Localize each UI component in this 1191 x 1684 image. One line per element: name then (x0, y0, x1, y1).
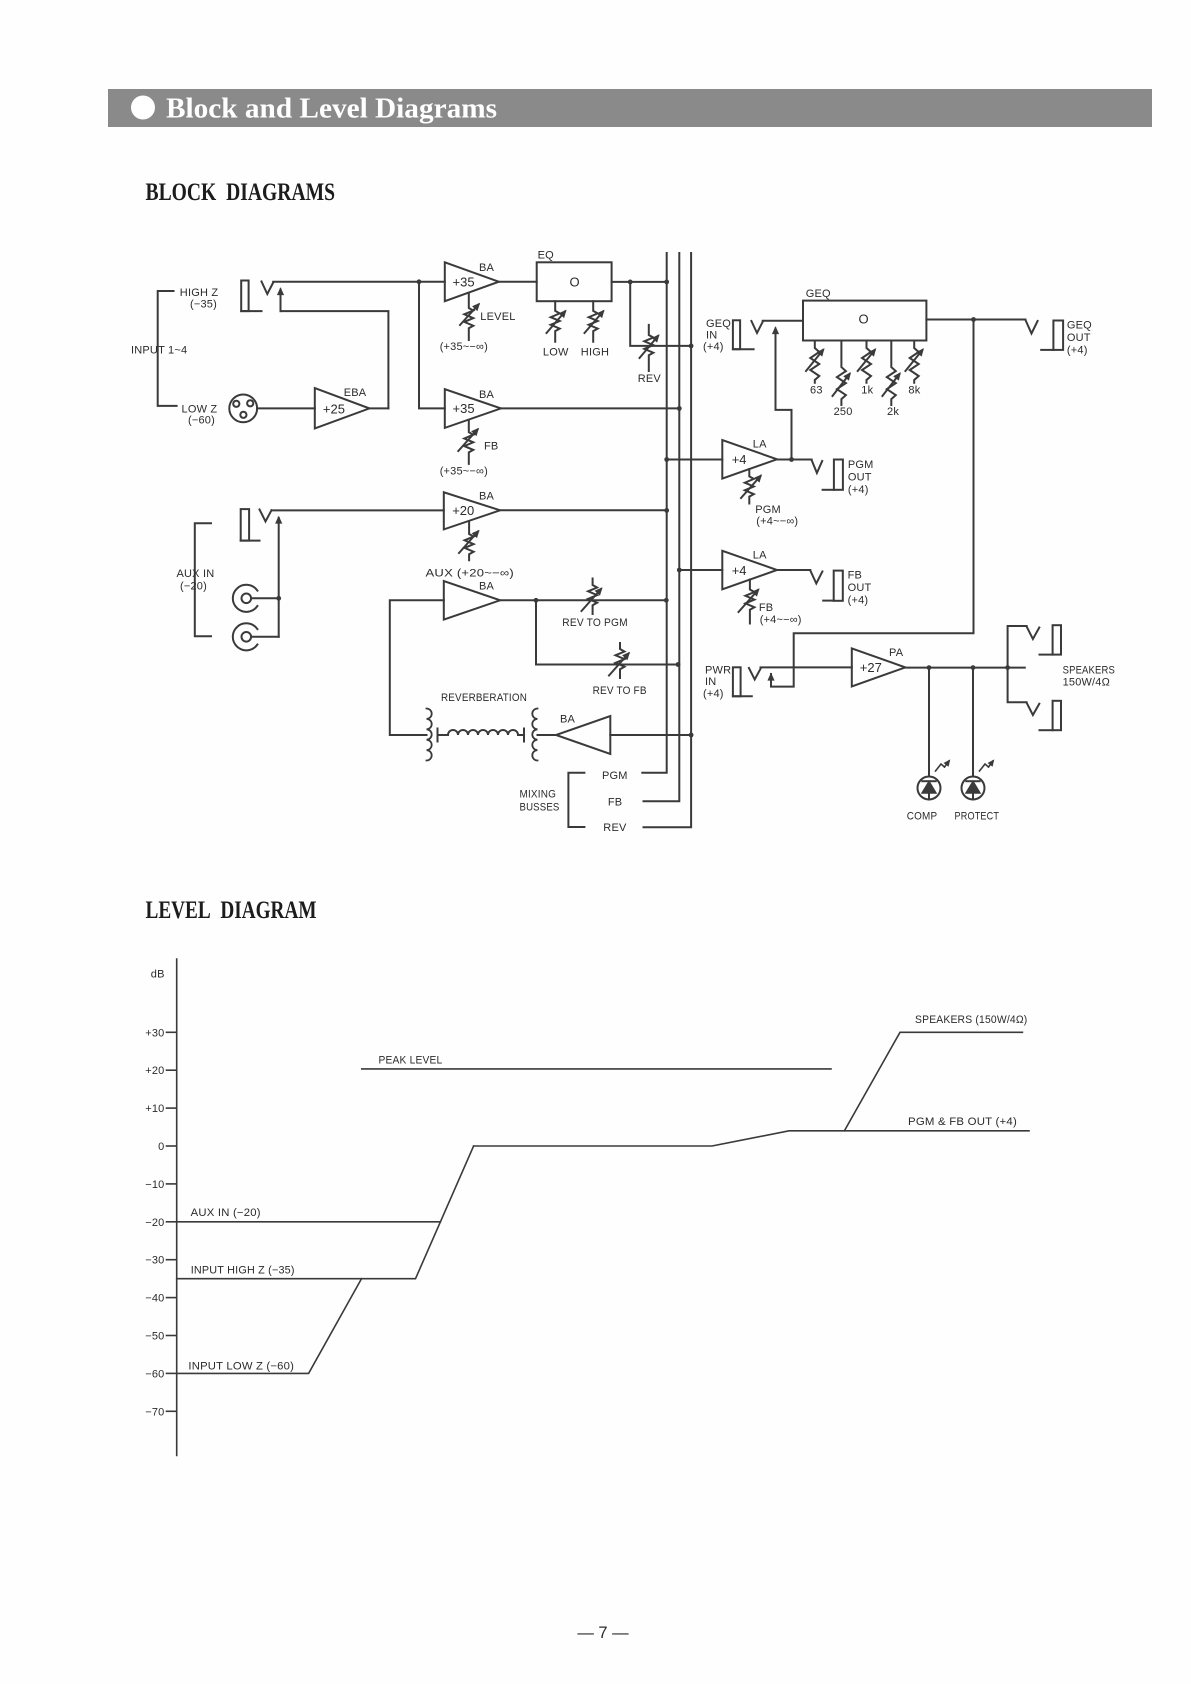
label PGM master pot (755, 504, 798, 528)
svg-text:GEQ: GEQ (1067, 320, 1092, 332)
axis tick +20 (167, 1069, 177, 1071)
wire PWR line to PA (761, 666, 852, 668)
svg-text:IN: IN (706, 330, 717, 342)
axis tick -10 (167, 1183, 177, 1185)
svg-text:PROTECT: PROTECT (955, 811, 1000, 823)
wire GEQ in line (763, 320, 803, 322)
svg-text:−70: −70 (145, 1406, 164, 1418)
svg-text:(+35~−∞): (+35~−∞) (440, 341, 488, 353)
svg-text:(+4~−∞): (+4~−∞) (760, 614, 802, 626)
RCA connector top (233, 585, 279, 612)
jack HIGH Z input (241, 281, 273, 312)
speaker jack bottom (1008, 668, 1061, 731)
svg-text:LA: LA (753, 550, 767, 562)
label SPEAKERS 150W/4ohm (1063, 665, 1115, 689)
potentiometer AUX (426, 523, 515, 580)
svg-text:INPUT 1~4: INPUT 1~4 (131, 345, 187, 357)
svg-text:−50: −50 (145, 1331, 164, 1343)
svg-text:PGM: PGM (848, 459, 874, 471)
svg-text:8k: 8k (908, 385, 920, 397)
svg-text:PGM: PGM (755, 504, 781, 516)
svg-text:2k: 2k (887, 406, 899, 418)
svg-text:FB: FB (484, 441, 498, 453)
node BA2 out (677, 406, 682, 411)
amplifier LA +4 (FB master) (722, 550, 777, 590)
label FB master pot (759, 602, 802, 626)
svg-text:+4: +4 (732, 452, 747, 467)
svg-text:63: 63 (810, 385, 823, 397)
svg-text:BA: BA (479, 262, 495, 274)
axis tick 0 (167, 1145, 177, 1147)
svg-text:−30: −30 (145, 1255, 164, 1267)
svg-text:COMP: COMP (907, 811, 938, 823)
trace INPUT LOW Z (177, 1279, 362, 1374)
svg-text:(+35~−∞): (+35~−∞) (440, 466, 488, 478)
wire EQ output to PGM bus (612, 281, 667, 283)
svg-text:(+4): (+4) (703, 688, 724, 700)
node reverb drive bus join (689, 733, 694, 738)
bracket MIXING BUSSES (568, 773, 584, 827)
svg-text:PWR: PWR (705, 665, 731, 677)
svg-text:+35: +35 (453, 401, 475, 416)
svg-text:LOW: LOW (543, 347, 569, 359)
svg-text:(−20): (−20) (180, 581, 207, 593)
jack FB OUT (810, 571, 843, 601)
svg-text:BLOCK DIAGRAMS: BLOCK DIAGRAMS (146, 179, 336, 206)
reverberation spring right (532, 709, 537, 761)
line PEAK LEVEL (362, 1068, 831, 1070)
svg-text:PGM & FB OUT (+4): PGM & FB OUT (+4) (908, 1116, 1017, 1128)
svg-text:(+4): (+4) (848, 484, 869, 496)
svg-text:REV: REV (638, 373, 662, 385)
svg-text:+20: +20 (452, 503, 474, 518)
axis tick -50 (167, 1335, 177, 1337)
slider 63 (806, 341, 823, 397)
svg-text:INPUT LOW Z (−60): INPUT LOW Z (−60) (188, 1361, 294, 1373)
slider 1k (858, 341, 875, 397)
wire reverb return to BA (390, 600, 444, 735)
svg-text:PEAK LEVEL: PEAK LEVEL (379, 1055, 443, 1067)
wire LA2 input from FB bus (679, 569, 722, 571)
svg-text:MIXING: MIXING (520, 789, 557, 801)
svg-text:BA: BA (479, 581, 495, 593)
svg-text:FB: FB (759, 602, 773, 614)
svg-text:+4: +4 (732, 563, 747, 578)
svg-text:EQ: EQ (538, 250, 555, 262)
svg-text:−60: −60 (145, 1368, 164, 1380)
level diagram axis (176, 959, 178, 1456)
trace speakers rise (844, 1032, 1022, 1131)
wire branch to BA2 (419, 282, 445, 409)
potentiometer HIGH (581, 301, 609, 358)
svg-text:0: 0 (158, 1141, 164, 1153)
node LA1 in (664, 457, 669, 462)
LED PROTECT (962, 668, 994, 800)
svg-text:dB: dB (151, 968, 165, 980)
slider 8k (905, 341, 922, 397)
svg-text:1k: 1k (861, 385, 873, 397)
amplifier BA +35 (LOW Z / FB channel) (445, 389, 501, 428)
potentiometer REV TO FB (593, 643, 647, 697)
svg-text:AUX (+20~−∞): AUX (+20~−∞) (426, 568, 515, 580)
mixing bus PGM (642, 253, 666, 773)
trace INPUT HIGH Z (177, 1146, 474, 1279)
node REV TO FB branch (534, 598, 539, 603)
jack GEQ IN (733, 320, 763, 349)
wire EBA output (369, 407, 388, 409)
jack PWR IN (733, 667, 761, 696)
EQ block (537, 250, 612, 302)
amplifier BA (reverb drive, points left) (556, 714, 610, 755)
mixing bus FB (644, 253, 680, 801)
jack AUX input (241, 509, 272, 540)
axis tick -20 (167, 1221, 177, 1223)
svg-text:+25: +25 (323, 402, 345, 417)
svg-text:AUX IN (−20): AUX IN (−20) (191, 1207, 261, 1219)
amplifier LA +4 (PGM master) (722, 439, 777, 479)
node REV TO PGM bus join (664, 598, 669, 603)
label LOW Z (-60) (182, 404, 218, 427)
svg-text:+27: +27 (860, 660, 882, 675)
svg-text:+35: +35 (453, 275, 475, 290)
amplifier BA +20 (AUX) (444, 491, 500, 530)
wire reverb drive input from REV bus (610, 734, 691, 736)
svg-text:O: O (570, 275, 580, 290)
svg-text:HIGH: HIGH (581, 347, 609, 359)
wire normalled return from EBA (281, 311, 389, 408)
node main/BA2 junction (417, 279, 422, 284)
svg-text:OUT: OUT (848, 472, 872, 484)
axis tick +30 (167, 1031, 177, 1033)
wire BA2 out to FB bus (501, 407, 679, 409)
svg-text:+20: +20 (145, 1065, 164, 1077)
svg-text:+10: +10 (145, 1103, 164, 1115)
slider 250 (833, 341, 853, 419)
label FB OUT (+4) (848, 570, 872, 607)
node EQ out to bus (664, 280, 669, 285)
svg-text:BA: BA (560, 714, 576, 726)
potentiometer REV (638, 325, 662, 385)
reverberation coil (448, 730, 518, 735)
jack PGM OUT (812, 460, 843, 490)
svg-text:PGM: PGM (602, 770, 628, 782)
potentiometer PGM master (741, 469, 761, 504)
svg-text:HIGH Z: HIGH Z (180, 287, 219, 299)
svg-text:OUT: OUT (848, 582, 872, 594)
wire REV TO FB branch (536, 600, 678, 664)
node EQ out branch (628, 280, 633, 285)
normal contact arrow (PGM out into GEQ IN jack) (775, 329, 777, 337)
svg-text:OUT: OUT (1067, 332, 1091, 344)
speaker jack top (1008, 625, 1061, 667)
wire XLR to EBA (257, 407, 315, 409)
potentiometer FB master (739, 580, 759, 624)
normal contact arrow (RCA into AUX jack) (278, 518, 280, 637)
node PGM out normal branch (789, 457, 794, 462)
amplifier EBA +25 (315, 387, 370, 429)
axis tick -60 (167, 1372, 177, 1374)
wire BA4 out to PGM bus (500, 599, 666, 601)
node COMP tap (927, 665, 932, 670)
amplifier BA +35 (HIGH Z channel) (445, 262, 499, 301)
normal contact arrow (EBA into HIGH Z jack) (280, 290, 282, 312)
svg-text:150W/4Ω: 150W/4Ω (1063, 677, 1110, 689)
axis tick -40 (167, 1297, 177, 1299)
graphic equalizer GEQ block (803, 288, 926, 341)
node speaker branch (1005, 665, 1010, 670)
svg-text:(+4): (+4) (1067, 345, 1088, 357)
svg-text:REV TO FB: REV TO FB (593, 685, 647, 697)
header bar: Block and Level Diagrams (108, 89, 1152, 127)
svg-text:FB: FB (848, 570, 862, 582)
svg-text:(+4~−∞): (+4~−∞) (756, 516, 798, 528)
label LEVEL (440, 311, 516, 353)
wire GEQ output (926, 319, 1025, 321)
svg-text:−10: −10 (145, 1179, 164, 1191)
wire GEQ out normalled to PWR IN (771, 320, 974, 687)
trace main level 0dB to +4 (474, 1131, 1029, 1146)
node REV TO FB bus join (676, 662, 681, 667)
amplifier BA (reverb return) (444, 581, 500, 620)
slider 2k (882, 341, 899, 419)
normal contact arrow (GEQ out into PWR IN jack) (770, 675, 772, 680)
reverberation spring left (427, 709, 432, 761)
node PROTECT tap (971, 665, 976, 670)
axis tick +10 (167, 1107, 177, 1109)
svg-text:SPEAKERS: SPEAKERS (1063, 665, 1115, 677)
svg-text:(+4): (+4) (848, 595, 869, 607)
bracket AUX IN (195, 523, 211, 636)
svg-text:PA: PA (889, 647, 904, 659)
axis tick -70 (167, 1410, 177, 1412)
power amplifier PA +27 (852, 647, 906, 686)
RCA connector bottom (233, 623, 279, 650)
svg-text:BA: BA (479, 491, 495, 503)
svg-text:REV: REV (603, 822, 627, 834)
svg-text:REVERBERATION: REVERBERATION (441, 692, 527, 704)
LED COMP (918, 668, 950, 800)
potentiometer LOW (543, 301, 569, 358)
svg-text:FB: FB (608, 796, 622, 808)
label MIXING BUSSES (520, 789, 560, 814)
svg-text:LEVEL: LEVEL (480, 311, 515, 323)
wire BA3 out to PGM bus (500, 509, 667, 511)
svg-text:— 7 —: — 7 — (577, 1624, 629, 1642)
svg-text:O: O (859, 312, 869, 327)
node LA2 in (677, 568, 682, 573)
svg-text:REV TO PGM: REV TO PGM (562, 617, 628, 629)
XLR connector LOW Z (229, 395, 257, 423)
svg-text:−40: −40 (145, 1293, 164, 1305)
svg-text:GEQ: GEQ (706, 318, 731, 330)
reverberation transducer bar right (518, 729, 524, 742)
label PGM OUT (+4) (848, 459, 874, 496)
jack GEQ OUT (1026, 320, 1064, 350)
wire PA output (905, 667, 1025, 669)
wire aux line (272, 509, 444, 511)
label AUX IN (-20) (177, 568, 215, 593)
svg-text:Block and Level Diagrams: Block and Level Diagrams (166, 94, 497, 125)
svg-text:INPUT HIGH Z (−35): INPUT HIGH Z (−35) (191, 1265, 295, 1277)
wire REV send branch (630, 282, 691, 346)
potentiometer FB (channel) (458, 421, 477, 464)
svg-text:LEVEL DIAGRAM: LEVEL DIAGRAM (146, 897, 317, 924)
wire LA2 output (777, 569, 810, 571)
reverberation transducer bar left (438, 729, 449, 742)
svg-text:IN: IN (705, 676, 716, 688)
wire spring to reverb drive amp (538, 734, 557, 736)
wire main input line (273, 281, 445, 283)
wire LA1 input from PGM bus (667, 459, 723, 461)
potentiometer REV TO PGM (562, 579, 628, 630)
svg-text:250: 250 (834, 406, 853, 418)
node BA3 out (664, 508, 669, 513)
input bracket INPUT 1~4 (158, 291, 177, 406)
label FB channel pot (440, 441, 499, 478)
svg-text:GEQ: GEQ (806, 288, 831, 300)
svg-text:(−35): (−35) (190, 299, 217, 311)
axis tick -30 (167, 1259, 177, 1261)
label GEQ IN (+4) (703, 318, 731, 353)
svg-text:SPEAKERS (150W/4Ω): SPEAKERS (150W/4Ω) (915, 1014, 1027, 1026)
label PWR IN (+4) (703, 665, 731, 701)
node GEQ out branch (971, 317, 976, 322)
svg-text:(−60): (−60) (188, 415, 215, 427)
svg-text:LA: LA (753, 439, 767, 451)
svg-text:AUX IN: AUX IN (177, 568, 215, 580)
svg-text:EBA: EBA (344, 387, 367, 399)
wire LA1 output (777, 459, 812, 461)
svg-text:−20: −20 (145, 1217, 164, 1229)
svg-text:+30: +30 (145, 1027, 164, 1039)
svg-text:BUSSES: BUSSES (520, 802, 560, 814)
svg-text:BA: BA (479, 389, 495, 401)
trace AUX IN (177, 1221, 441, 1223)
node RCA tap (276, 596, 281, 601)
svg-text:(+4): (+4) (703, 341, 724, 353)
node REV bus join (689, 344, 694, 349)
label HIGH Z (-35) (180, 287, 219, 311)
wire BA1 to EQ (499, 281, 537, 283)
mixing bus REV (644, 253, 692, 827)
wire PGM out normalled to GEQ IN (776, 331, 792, 460)
label GEQ OUT (+4) (1067, 320, 1092, 357)
potentiometer LEVEL (460, 294, 479, 340)
